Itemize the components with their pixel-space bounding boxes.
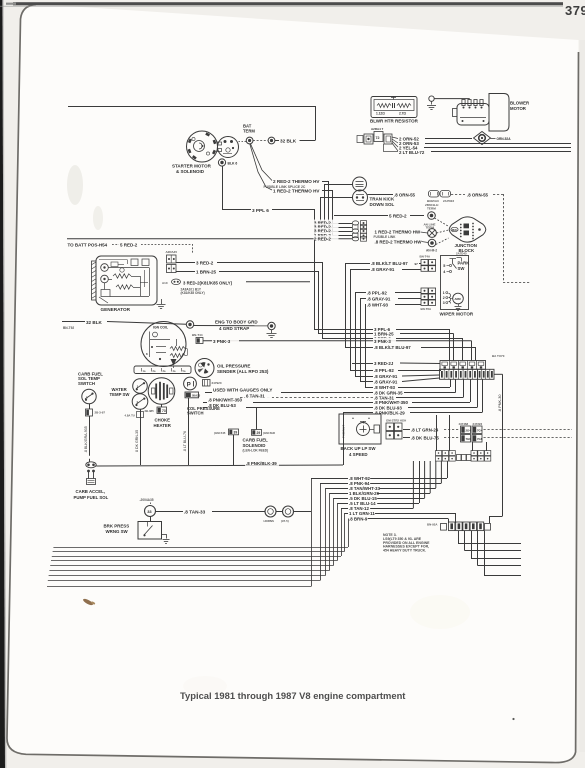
svg-text:OIL PRESSURE: OIL PRESSURE <box>217 363 250 368</box>
wire 3 RED-2J row <box>352 363 373 365</box>
top header rule <box>13 2 563 5</box>
svg-text:29: 29 <box>257 431 261 435</box>
back up lamp switch <box>339 414 381 444</box>
svg-text:A10: A10 <box>162 281 168 285</box>
svg-text:HEATER: HEATER <box>154 423 172 428</box>
svg-text:.8 DK BLU-53: .8 DK BLU-53 <box>208 403 236 408</box>
svg-text:32 BLK: 32 BLK <box>86 320 103 325</box>
svg-text:IGN COIL: IGN COIL <box>153 326 168 330</box>
svg-text:TERM: TERM <box>427 207 436 211</box>
wire .8 PNK-30 vertical <box>494 373 503 375</box>
stack connectors <box>352 221 358 225</box>
svg-text:PUMP FUEL SOL: PUMP FUEL SOL <box>74 495 109 500</box>
wire .8 PNK/BLK-39 run <box>96 465 343 466</box>
svg-text:.8 DK BLU-75: .8 DK BLU-75 <box>411 436 439 441</box>
svg-text:CARB FUEL: CARB FUEL <box>243 437 269 442</box>
oil pressure sender <box>195 359 214 378</box>
svg-text:1: 1 <box>443 291 445 295</box>
wire .8 WHT-93 <box>365 304 366 306</box>
ECM connector strip lower <box>440 369 478 379</box>
svg-text:3: 3 <box>443 301 445 305</box>
svg-text:1 BRN-25: 1 BRN-25 <box>196 269 217 274</box>
connector diamond <box>474 132 491 145</box>
svg-text:CARB ACCEL,: CARB ACCEL, <box>76 489 105 494</box>
svg-text:.8 PNK-30: .8 PNK-30 <box>498 394 502 412</box>
node carb accel feed <box>86 462 96 468</box>
svg-text:32 BLK: 32 BLK <box>280 139 297 144</box>
wire 3 PNK-3 <box>203 340 472 342</box>
wire 1 BRN-25 <box>176 271 195 273</box>
svg-text:.8 ORN-55: .8 ORN-55 <box>394 192 416 197</box>
right margin shading <box>580 40 585 752</box>
wiper connector stack lower <box>421 288 428 293</box>
svg-text:.8 PNK/BLK-39: .8 PNK/BLK-39 <box>246 461 277 466</box>
svg-text:.8 GRAY-91: .8 GRAY-91 <box>374 380 398 385</box>
svg-text:.8 BLK/GRA-935: .8 BLK/GRA-935 <box>84 426 88 453</box>
wire .8 TAN-33 <box>156 511 184 513</box>
svg-text:(K81/K85 ONLY): (K81/K85 ONLY) <box>181 291 205 295</box>
node coil top <box>186 321 193 328</box>
svg-text:5 RED-2: 5 RED-2 <box>120 242 138 247</box>
svg-text:73: 73 <box>162 409 166 413</box>
svg-text:SWITCH: SWITCH <box>78 381 95 386</box>
svg-text:.8 PNK/WHT-350: .8 PNK/WHT-350 <box>374 400 408 405</box>
svg-text:BN-92A: BN-92A <box>427 523 438 527</box>
svg-text:3 PNK-3: 3 PNK-3 <box>374 339 391 344</box>
svg-text:(GM-545: (GM-545 <box>214 431 226 435</box>
wire thermo1 drop <box>322 181 328 183</box>
svg-text:& SOLENOID: & SOLENOID <box>176 169 205 174</box>
svg-text:BA TU70: BA TU70 <box>492 354 505 358</box>
wire 32 BLK feed to top rail <box>68 106 315 108</box>
svg-text:2A7D45: 2A7D45 <box>456 252 467 256</box>
svg-text:.8 PPL-92: .8 PPL-92 <box>367 291 387 296</box>
svg-text:.8 RED-2 THERMO HW: .8 RED-2 THERMO HW <box>375 239 423 244</box>
svg-text:SOLENOID: SOLENOID <box>243 443 266 448</box>
wire .5 LT BLU-14 <box>338 503 349 505</box>
trans kickdown solenoid lower <box>353 190 368 205</box>
svg-text:3 PPL 6: 3 PPL 6 <box>252 208 269 213</box>
wire .8 BLK/LT BLU-97 <box>345 263 370 265</box>
svg-text:3 RED-2: 3 RED-2 <box>196 260 214 265</box>
svg-text:3 RED-2(K81/K85 ONLY): 3 RED-2(K81/K85 ONLY) <box>183 280 233 285</box>
svg-text:CHOKE: CHOKE <box>155 418 171 423</box>
svg-text:1 RED-2 THERMO HV: 1 RED-2 THERMO HV <box>273 189 320 194</box>
mid connector cluster left <box>436 451 442 456</box>
wire 1 BLK/GRN-29 <box>330 493 349 495</box>
node X terminal <box>428 229 437 238</box>
svg-text:72: 72 <box>376 136 380 140</box>
node 22 <box>265 506 276 517</box>
left black binding strip <box>0 0 5 768</box>
svg-text:5: 5 <box>443 264 445 268</box>
water temp lead <box>140 409 142 465</box>
oil pressure switch P <box>184 377 197 390</box>
second temp sender <box>132 394 148 410</box>
starter solenoid <box>218 137 239 158</box>
choke heater element <box>148 378 175 405</box>
wire .5 DK BLU-15 <box>334 498 349 500</box>
svg-text:HORNS: HORNS <box>264 519 275 523</box>
wire .8 DK BLU-53 row <box>203 407 207 409</box>
svg-text:RED: RED <box>452 229 457 232</box>
wire 3 RED-2 row <box>322 338 373 340</box>
svg-text:GENERATOR: GENERATOR <box>101 307 131 312</box>
svg-text:.8 BLK/LT BLU-97: .8 BLK/LT BLU-97 <box>374 345 411 350</box>
wire .8 GRAY-91 b <box>360 298 366 300</box>
wires BAT to thermo links <box>251 144 273 181</box>
wire 3 PPL-6 row <box>314 329 373 331</box>
junction block <box>449 217 486 242</box>
strip drop wires to right stubs <box>458 531 460 544</box>
svg-text:(LEN-LOK FEED): (LEN-LOK FEED) <box>243 449 269 453</box>
svg-text:BACK UP LP SW: BACK UP LP SW <box>341 446 377 451</box>
wire .8 PNK/BLK-29 row <box>343 412 373 414</box>
blower heater resistor R-blwr <box>371 97 417 118</box>
svg-text:STARTER MOTOR: STARTER MOTOR <box>172 164 212 169</box>
wire .8 DK GRN-35 row <box>205 392 212 394</box>
generator <box>96 256 157 305</box>
svg-text:.8 BRN-9: .8 BRN-9 <box>349 517 368 522</box>
wire BAT to 32 BLK node <box>253 140 268 142</box>
svg-text:.8 ORN-55: .8 ORN-55 <box>467 192 489 197</box>
wire .8 GRAY-91 row b <box>360 381 373 383</box>
svg-text:ORN-52A: ORN-52A <box>497 137 512 141</box>
svg-text:MOTOR: MOTOR <box>510 106 527 111</box>
svg-text:TERM: TERM <box>243 128 255 133</box>
svg-text:3 RED-2J: 3 RED-2J <box>374 361 394 366</box>
carb temp switch lead <box>89 404 91 409</box>
wire solenoid left drops <box>320 197 353 199</box>
svg-text:BN-T92: BN-T92 <box>63 326 74 330</box>
wire .8 TAN/WHT-33 <box>326 488 349 490</box>
svg-text:.8 PNK/BLK-29: .8 PNK/BLK-29 <box>374 411 405 416</box>
connector C-blower 3-term <box>357 136 363 143</box>
svg-text:B9G5A3: B9G5A3 <box>427 199 439 203</box>
svg-text:2B-385: 2B-385 <box>145 409 155 413</box>
wire .8 GRAY-91 row a <box>355 376 373 378</box>
svg-text:.8 TAN-33: .8 TAN-33 <box>184 509 206 514</box>
svg-text:.8 PNK/WHT-350: .8 PNK/WHT-350 <box>208 397 242 402</box>
svg-text:2B-3-97: 2B-3-97 <box>95 411 106 415</box>
wire 3 RED-2 <box>176 262 195 264</box>
ECM connector block right <box>478 369 495 379</box>
node solenoid BLK terminal <box>218 159 225 166</box>
svg-text:BN-T4A: BN-T4A <box>420 255 432 259</box>
wire thermo2 drop <box>322 190 332 192</box>
RED-2 feeder stack rows <box>320 223 352 225</box>
svg-text:ARM: ARM <box>455 297 462 301</box>
oil pressure switch terminal box <box>185 392 199 398</box>
starter motor <box>187 131 218 162</box>
svg-text:454 HEAVY DUTY TRUCK.: 454 HEAVY DUTY TRUCK. <box>383 549 426 553</box>
svg-text:SW: SW <box>458 266 466 271</box>
choke heater connector 73 <box>161 404 163 407</box>
svg-text:BLOWER: BLOWER <box>510 101 530 106</box>
svg-text:2A7D23: 2A7D23 <box>443 199 454 203</box>
svg-text:1.12Ω: 1.12Ω <box>376 112 385 116</box>
wire 32 BLK engine <box>62 321 85 323</box>
svg-text:(GM-5H8: (GM-5H8 <box>263 431 275 435</box>
svg-text:.8 WHT-93: .8 WHT-93 <box>374 385 396 390</box>
carb fuel solenoid connector 29 <box>252 430 262 436</box>
svg-text:97: 97 <box>415 262 419 266</box>
lt blu lead down <box>188 398 190 465</box>
mid connector cluster bar <box>457 455 462 461</box>
wire .8 PNK/WHT-350 row <box>203 402 207 404</box>
svg-text:TEMP SW: TEMP SW <box>110 392 131 397</box>
svg-text:.8 LT GRN-24: .8 LT GRN-24 <box>411 428 439 433</box>
wire .8 ORN-55 <box>368 194 394 196</box>
wire 6 TAN-31 row <box>240 397 373 399</box>
svg-text:.8 GRAY-91: .8 GRAY-91 <box>374 374 398 379</box>
svg-text:A2RA45: A2RA45 <box>166 250 178 254</box>
blower wires fan <box>392 137 398 139</box>
svg-text:BN-T6A: BN-T6A <box>421 307 433 311</box>
svg-text:.8 GRAY-91: .8 GRAY-91 <box>367 297 391 302</box>
ground at blower <box>429 96 434 101</box>
dashed to junction block <box>437 230 449 233</box>
wire .8 TAN-12 <box>341 508 348 510</box>
wire .8 WHT-93 row <box>365 387 373 389</box>
wire .8 BLK/LT BLU-97 row <box>345 347 373 349</box>
wire .8 LT GRN-24 <box>403 429 410 431</box>
svg-text:.8 WHT-93: .8 WHT-93 <box>367 303 389 308</box>
svg-text:A2RA4 7: A2RA4 7 <box>371 127 384 131</box>
svg-text:-2004A35: -2004A35 <box>140 498 154 502</box>
svg-text:.8 LT BLU-76: .8 LT BLU-76 <box>183 431 187 452</box>
wire .8 BRN-9 <box>348 518 350 520</box>
wire 3 PNK-3 row label <box>373 338 396 344</box>
generator ground <box>161 299 163 304</box>
svg-text:BLK 6: BLK 6 <box>228 162 238 166</box>
svg-text:WIPER MOTOR: WIPER MOTOR <box>440 311 474 316</box>
svg-text:5 RED-2: 5 RED-2 <box>389 214 407 219</box>
svg-text:SWITCH: SWITCH <box>187 411 204 416</box>
node 23 <box>283 506 294 517</box>
svg-text:(97-5): (97-5) <box>281 519 289 523</box>
svg-text:4 GRD STRAP: 4 GRD STRAP <box>219 326 249 331</box>
svg-text:7G8: 7G8 <box>477 437 483 441</box>
svg-text:2G4: 2G4 <box>466 429 472 433</box>
wire 5 RED-2 <box>334 215 388 217</box>
svg-text:1 RED-2 THERMO HW: 1 RED-2 THERMO HW <box>375 229 421 234</box>
svg-text:BN-T44: BN-T44 <box>192 333 203 337</box>
svg-text:WRNG SW: WRNG SW <box>106 529 129 534</box>
connector 247920 <box>203 380 211 387</box>
wire ground to blower motor <box>434 98 469 100</box>
stray ink dot <box>512 718 514 720</box>
svg-text:BRK PRESS: BRK PRESS <box>104 523 130 528</box>
ground node right <box>268 322 275 329</box>
svg-text:39: 39 <box>234 431 238 435</box>
svg-text:P: P <box>187 383 191 389</box>
node lower terminal <box>428 239 436 247</box>
ECM connector strip upper <box>440 361 486 370</box>
svg-text:4 SPEED: 4 SPEED <box>349 452 368 457</box>
svg-text:6 TAN-31: 6 TAN-31 <box>246 393 265 398</box>
svg-text:.8 PPL-92: .8 PPL-92 <box>374 368 394 373</box>
wire PPL drop to ECM row <box>314 209 316 329</box>
wire .8 PPL-92 <box>355 292 366 294</box>
svg-text:33: 33 <box>147 509 152 514</box>
svg-text:8 DK GRN-35: 8 DK GRN-35 <box>135 430 139 452</box>
carb accel pump connector <box>88 472 90 479</box>
wire 1 BRN-25 row <box>318 333 373 335</box>
svg-text:AN-M-2: AN-M-2 <box>426 249 437 253</box>
wire 1 LT GRN-11 <box>345 513 349 515</box>
svg-text:2: 2 <box>443 296 445 300</box>
svg-text:THD/NUT: THD/NUT <box>342 425 346 438</box>
svg-text:7G4: 7G4 <box>477 429 483 433</box>
svg-text:GM-STR2 HGH: GM-STR2 HGH <box>386 418 406 422</box>
svg-text:05A23: 05A23 <box>192 394 201 398</box>
svg-text:2 LT BLU-72: 2 LT BLU-72 <box>399 150 425 155</box>
svg-text:247920: 247920 <box>212 381 222 385</box>
svg-text:2.7Ω: 2.7Ω <box>399 112 406 116</box>
svg-text:4.8A TU: 4.8A TU <box>125 414 135 418</box>
wire .8 GRAY-91 a <box>350 269 370 271</box>
svg-text:7G8: 7G8 <box>466 437 472 441</box>
svg-text:.8 GRAY-91: .8 GRAY-91 <box>371 267 395 272</box>
svg-text:Typical 1981 through 1987 V8 e: Typical 1981 through 1987 V8 engine comp… <box>180 690 405 701</box>
svg-text:1 LT GRN-11: 1 LT GRN-11 <box>349 511 375 516</box>
svg-text:+: + <box>368 417 370 421</box>
ignition coil assembly <box>141 322 186 367</box>
trans kickdown solenoid upper <box>353 177 367 191</box>
svg-text:BLWR HTR RESISTOR: BLWR HTR RESISTOR <box>370 119 419 124</box>
svg-text:379: 379 <box>565 3 585 18</box>
svg-text:USED WITH GAUGES ONLY: USED WITH GAUGES ONLY <box>213 387 272 392</box>
wire .8 PPL-92 row <box>350 370 373 372</box>
node junction feed <box>428 212 436 220</box>
svg-text:+: + <box>352 417 354 421</box>
svg-text:3 PNK-3: 3 PNK-3 <box>213 339 231 344</box>
wire eng to body ground <box>194 325 268 327</box>
park switch <box>452 259 454 264</box>
wire .8 DK BLU-75 <box>403 437 410 439</box>
wire solenoid to PPL run <box>222 166 224 209</box>
blower motor M1 <box>489 94 509 132</box>
distributor pickup strip <box>134 366 191 374</box>
wiper motor armature <box>453 293 464 304</box>
svg-text:TERM: TERM <box>426 226 435 230</box>
wire .8 WHT-92 <box>311 478 348 480</box>
wiper assembly outline <box>441 256 469 310</box>
svg-text:2 RED-2: 2 RED-2 <box>314 236 331 241</box>
svg-text:DOWN SOL: DOWN SOL <box>370 202 395 207</box>
generator internals <box>99 259 127 261</box>
scan speck <box>82 597 95 607</box>
mid connector cluster right <box>471 451 477 456</box>
svg-text:2 RED-2 THERMO HV: 2 RED-2 THERMO HV <box>273 179 320 184</box>
generator brush hatch <box>92 261 97 300</box>
wire .8 PNK-94 <box>320 483 348 485</box>
svg-text:TO BATT POS-H54: TO BATT POS-H54 <box>68 242 108 247</box>
svg-text:SENDER (ALL RPO 253): SENDER (ALL RPO 253) <box>217 369 269 374</box>
svg-text:ENG TO BODY GRD: ENG TO BODY GRD <box>215 319 258 324</box>
svg-text:.8 BLK/LT BLU-97: .8 BLK/LT BLU-97 <box>371 261 408 266</box>
drops from connectors to mid cluster <box>472 442 474 451</box>
